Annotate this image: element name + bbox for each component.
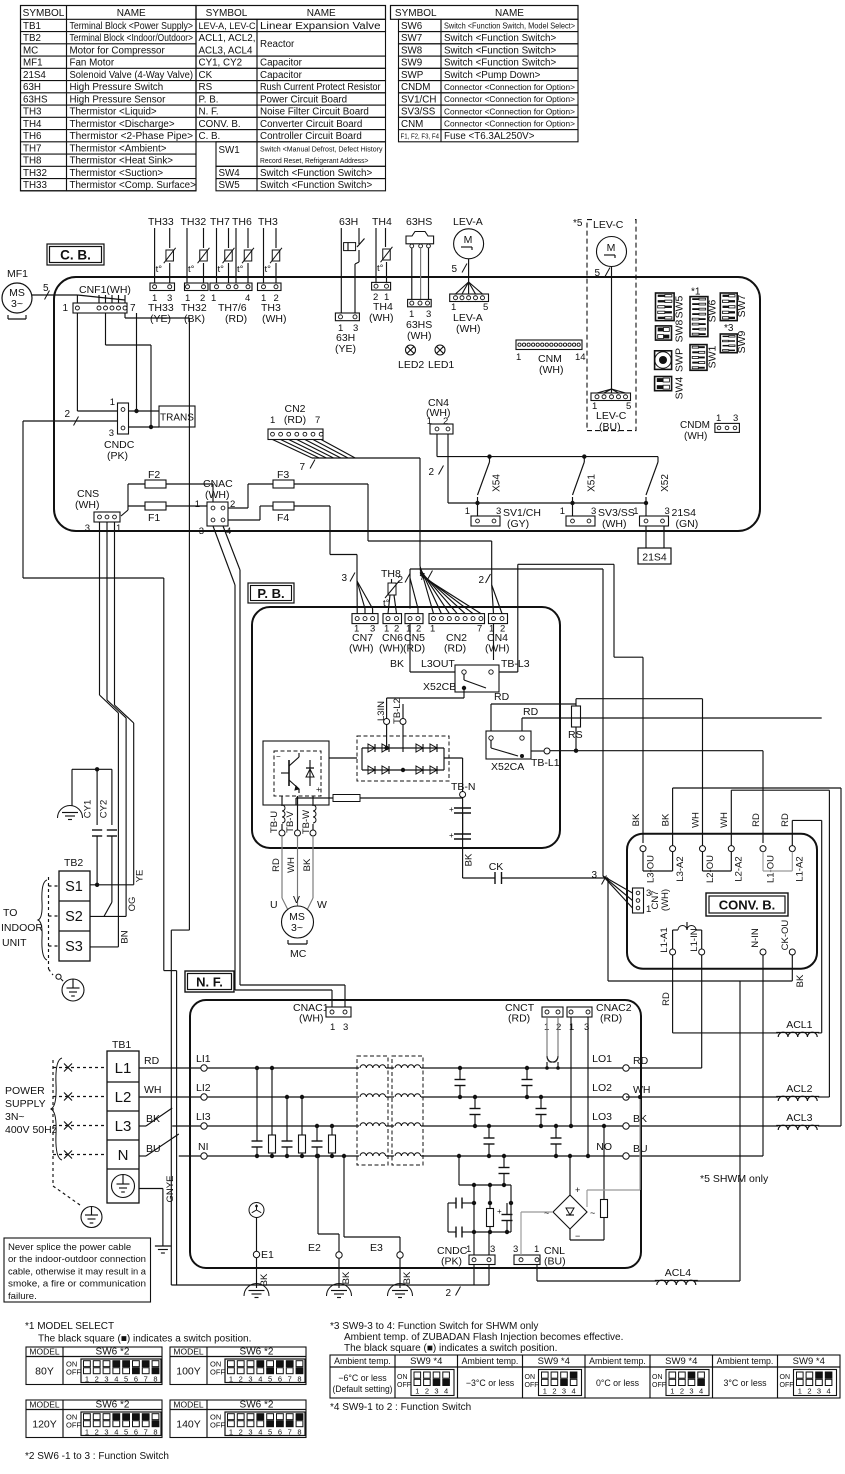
svg-text:CNDM: CNDM	[401, 82, 430, 93]
svg-text:3: 3	[490, 1244, 495, 1255]
svg-text:(WH): (WH)	[299, 1013, 324, 1025]
svg-text:MC: MC	[290, 948, 307, 960]
svg-text:WH: WH	[633, 1084, 651, 1096]
svg-text:(RD): (RD)	[600, 1013, 622, 1025]
svg-text:LED1: LED1	[428, 359, 454, 371]
svg-text:ACL1, ACL2,: ACL1, ACL2,	[199, 33, 256, 44]
svg-text:RD: RD	[751, 813, 762, 827]
svg-text:Capacitor: Capacitor	[260, 58, 303, 69]
svg-text:t°: t°	[377, 263, 384, 274]
svg-text:GNYE: GNYE	[165, 1176, 176, 1203]
svg-text:7: 7	[288, 1428, 292, 1437]
svg-text:7: 7	[299, 462, 305, 473]
svg-text:1: 1	[415, 1387, 419, 1396]
svg-text:7: 7	[477, 624, 482, 635]
svg-text:WH: WH	[286, 857, 297, 873]
svg-text:SUPPLY: SUPPLY	[5, 1098, 46, 1110]
svg-text:P. B.: P. B.	[257, 586, 284, 601]
svg-text:Switch <Pump Down>: Switch <Pump Down>	[444, 70, 541, 81]
svg-text:MODEL: MODEL	[29, 1400, 60, 1410]
svg-text:X54: X54	[492, 474, 503, 492]
svg-text:Fan Motor: Fan Motor	[70, 58, 115, 69]
svg-text:SW1: SW1	[219, 145, 240, 156]
svg-text:TH33: TH33	[23, 180, 48, 191]
svg-text:SW9 *4: SW9 *4	[665, 1356, 697, 1367]
svg-text:RD: RD	[633, 1055, 649, 1067]
svg-text:MF1: MF1	[7, 268, 28, 280]
svg-text:TH6: TH6	[232, 216, 252, 228]
svg-text:SW9 *4: SW9 *4	[793, 1356, 825, 1367]
svg-text:L3IN: L3IN	[376, 701, 387, 721]
svg-text:3: 3	[109, 428, 114, 439]
svg-text:2: 2	[443, 416, 448, 427]
svg-text:TB2: TB2	[23, 33, 41, 44]
svg-text:E1: E1	[261, 1249, 274, 1261]
svg-text:SW6 *2: SW6 *2	[240, 1347, 274, 1358]
svg-text:~: ~	[590, 1208, 595, 1218]
svg-text:SW6: SW6	[401, 21, 423, 32]
svg-text:3: 3	[513, 1244, 518, 1255]
svg-text:BK: BK	[146, 1113, 160, 1125]
svg-text:High Pressure Sensor: High Pressure Sensor	[70, 94, 167, 105]
svg-text:(RD): (RD)	[225, 313, 247, 325]
svg-text:(WH): (WH)	[75, 499, 100, 511]
svg-text:E2: E2	[308, 1242, 321, 1254]
svg-text:C. B.: C. B.	[60, 248, 91, 263]
svg-text:1: 1	[330, 1022, 335, 1033]
svg-text:TH33: TH33	[148, 216, 174, 228]
svg-text:CK-OU: CK-OU	[780, 920, 791, 951]
svg-text:1: 1	[85, 1375, 89, 1384]
svg-text:TH4: TH4	[23, 119, 42, 130]
svg-text:BK: BK	[302, 858, 313, 871]
svg-text:MODEL: MODEL	[173, 1347, 204, 1357]
svg-text:NAME: NAME	[117, 8, 146, 19]
svg-text:RD: RD	[780, 813, 791, 827]
svg-text:LED2: LED2	[398, 359, 424, 371]
svg-text:F2: F2	[148, 469, 160, 481]
svg-text:CY1, CY2: CY1, CY2	[199, 58, 243, 69]
svg-text:Thermistor <2-Phase Pipe>: Thermistor <2-Phase Pipe>	[70, 131, 194, 142]
svg-text:Thermistor <Heat Sink>: Thermistor <Heat Sink>	[70, 156, 174, 167]
svg-text:+: +	[497, 1207, 502, 1216]
svg-text:5: 5	[124, 1375, 128, 1384]
svg-text:OFF: OFF	[525, 1382, 539, 1389]
svg-text:Motor for Compressor: Motor for Compressor	[70, 45, 166, 56]
svg-text:Connector <Connection for Opti: Connector <Connection for Option>	[444, 106, 575, 116]
svg-text:Power Circuit Board: Power Circuit Board	[260, 94, 347, 105]
svg-text:LI1: LI1	[196, 1053, 211, 1065]
svg-text:t°: t°	[188, 264, 195, 275]
svg-text:BN: BN	[119, 930, 130, 943]
svg-text:(WH): (WH)	[602, 518, 627, 530]
svg-text:+: +	[316, 785, 321, 794]
svg-text:6: 6	[278, 1428, 282, 1437]
svg-text:*5 SHWM only: *5 SHWM only	[700, 1173, 769, 1185]
svg-text:M: M	[464, 234, 473, 246]
svg-text:7: 7	[130, 303, 136, 314]
svg-text:SYMBOL: SYMBOL	[395, 8, 437, 19]
svg-text:3: 3	[591, 506, 596, 517]
svg-text:TB2: TB2	[64, 857, 83, 869]
svg-text:*1 MODEL SELECT: *1 MODEL SELECT	[25, 1321, 114, 1332]
svg-text:cable, otherwise it may result: cable, otherwise it may result in a	[8, 1266, 147, 1277]
svg-text:Switch <Function Switch>: Switch <Function Switch>	[444, 45, 556, 56]
svg-text:Converter Circuit Board: Converter Circuit Board	[260, 119, 362, 130]
svg-text:3: 3	[733, 413, 738, 424]
svg-text:5: 5	[451, 264, 457, 275]
svg-text:Capacitor: Capacitor	[260, 70, 303, 81]
svg-text:L3: L3	[115, 1118, 132, 1135]
svg-text:TH32: TH32	[181, 216, 207, 228]
svg-text:2: 2	[239, 1375, 243, 1384]
svg-text:1: 1	[543, 1387, 547, 1396]
svg-text:L3OUT: L3OUT	[421, 658, 455, 670]
svg-text:CNDM: CNDM	[680, 420, 710, 431]
svg-text:SW4: SW4	[674, 376, 686, 399]
svg-text:E3: E3	[370, 1242, 383, 1254]
svg-text:3: 3	[591, 870, 597, 881]
svg-text:(BK): (BK)	[184, 313, 205, 325]
svg-text:F1: F1	[148, 512, 160, 524]
svg-text:C. B.: C. B.	[199, 131, 221, 142]
svg-text:1: 1	[516, 352, 521, 363]
svg-text:(BU): (BU)	[599, 421, 621, 433]
svg-text:Switch <Function Switch>: Switch <Function Switch>	[260, 180, 372, 191]
svg-text:*3 SW9-3 to 4: Function Switc: *3 SW9-3 to 4: Function Switch for SHWM …	[330, 1321, 538, 1332]
svg-text:The black square (■) indicates: The black square (■) indicates a switch …	[344, 1343, 557, 1354]
svg-text:(YE): (YE)	[150, 313, 171, 325]
svg-text:L3-OU: L3-OU	[645, 855, 656, 883]
svg-text:Terminal Block <Power Supply>: Terminal Block <Power Supply>	[70, 21, 194, 32]
svg-text:SW5: SW5	[674, 295, 686, 318]
svg-text:1: 1	[270, 415, 275, 426]
svg-text:7: 7	[144, 1375, 148, 1384]
svg-text:V: V	[293, 894, 300, 906]
svg-text:4: 4	[572, 1387, 576, 1396]
svg-text:TB1: TB1	[23, 21, 41, 32]
svg-text:SW7: SW7	[736, 294, 748, 317]
svg-text:(WH): (WH)	[485, 643, 510, 655]
svg-text:smoke, a fire or communication: smoke, a fire or communication	[8, 1279, 146, 1290]
svg-text:(BU): (BU)	[544, 1256, 566, 1268]
svg-text:2: 2	[95, 1428, 99, 1437]
svg-text:BU: BU	[146, 1143, 161, 1155]
svg-text:N-IN: N-IN	[750, 928, 761, 948]
svg-text:3N~: 3N~	[5, 1111, 25, 1123]
svg-text:CK: CK	[199, 70, 213, 81]
svg-text:1: 1	[229, 1428, 233, 1437]
svg-text:L1-OU: L1-OU	[765, 855, 776, 883]
svg-text:CONV. B.: CONV. B.	[199, 119, 241, 130]
svg-text:1: 1	[569, 1022, 574, 1033]
svg-text:t°: t°	[218, 264, 225, 275]
svg-text:Fuse <T6.3AL250V>: Fuse <T6.3AL250V>	[444, 131, 535, 142]
svg-text:2: 2	[239, 1428, 243, 1437]
svg-text:(YE): (YE)	[335, 343, 356, 355]
svg-text:WH: WH	[690, 812, 701, 828]
svg-text:S1: S1	[65, 879, 83, 895]
svg-text:1: 1	[110, 397, 115, 408]
svg-text:8: 8	[297, 1375, 301, 1384]
svg-text:N: N	[118, 1147, 129, 1164]
svg-text:SW6 *2: SW6 *2	[240, 1400, 274, 1411]
svg-text:3: 3	[665, 506, 670, 517]
svg-text:CONV. B.: CONV. B.	[719, 898, 776, 913]
svg-text:(WH): (WH)	[407, 330, 432, 342]
svg-text:3: 3	[199, 526, 204, 537]
svg-text:X52CA: X52CA	[491, 761, 524, 773]
svg-text:ON: ON	[397, 1374, 408, 1381]
svg-text:+: +	[449, 805, 454, 814]
svg-text:2: 2	[552, 1387, 556, 1396]
svg-text:21S4: 21S4	[642, 552, 667, 564]
svg-text:ON: ON	[652, 1374, 663, 1381]
svg-text:LO1: LO1	[592, 1053, 612, 1065]
svg-text:WH: WH	[144, 1084, 162, 1096]
svg-text:X52CB: X52CB	[423, 681, 456, 693]
svg-text:63HS: 63HS	[406, 216, 432, 228]
svg-text:Never splice the power cable: Never splice the power cable	[8, 1242, 131, 1253]
svg-text:N. F.: N. F.	[199, 107, 219, 118]
svg-text:1: 1	[670, 1387, 674, 1396]
svg-text:failure.: failure.	[8, 1291, 37, 1302]
svg-text:TH7: TH7	[23, 143, 42, 154]
svg-text:L2-A2: L2-A2	[734, 856, 745, 881]
svg-text:WH: WH	[719, 812, 730, 828]
svg-text:*3: *3	[724, 323, 734, 334]
svg-text:(RD): (RD)	[403, 643, 425, 655]
svg-text:F1, F2, F3, F4: F1, F2, F3, F4	[401, 131, 440, 140]
svg-text:1: 1	[62, 303, 68, 314]
svg-text:MODEL: MODEL	[173, 1400, 204, 1410]
svg-text:2: 2	[445, 1288, 451, 1299]
svg-text:TH4: TH4	[372, 216, 392, 228]
svg-text:Ambient temp.: Ambient temp.	[589, 1356, 646, 1366]
svg-text:RS: RS	[199, 82, 213, 93]
svg-text:8: 8	[297, 1428, 301, 1437]
svg-text:7: 7	[419, 572, 425, 583]
svg-text:SV3/SS: SV3/SS	[401, 107, 436, 118]
svg-text:14: 14	[575, 352, 586, 363]
svg-text:NAME: NAME	[495, 8, 524, 19]
svg-text:TH3: TH3	[258, 216, 278, 228]
svg-text:t°: t°	[156, 264, 163, 275]
svg-text:6: 6	[134, 1428, 138, 1437]
svg-text:3: 3	[341, 573, 347, 584]
svg-text:63H: 63H	[339, 216, 358, 228]
svg-text:Terminal Block <Indoor/Outdoor: Terminal Block <Indoor/Outdoor>	[70, 33, 194, 44]
svg-text:2: 2	[397, 575, 403, 586]
svg-text:MF1: MF1	[23, 58, 43, 69]
svg-text:SW8: SW8	[674, 319, 686, 342]
svg-text:3: 3	[562, 1387, 566, 1396]
svg-text:Noise Filter Circuit Board: Noise Filter Circuit Board	[260, 107, 369, 118]
svg-text:7: 7	[288, 1375, 292, 1384]
svg-text:1: 1	[229, 1375, 233, 1384]
svg-text:Switch <Function Switch>: Switch <Function Switch>	[444, 33, 556, 44]
svg-text:High Pressure Switch: High Pressure Switch	[70, 82, 164, 93]
svg-text:2: 2	[478, 575, 484, 586]
svg-text:TB-L1: TB-L1	[531, 757, 560, 769]
svg-text:SW5: SW5	[219, 180, 241, 191]
svg-text:(WH): (WH)	[205, 489, 230, 501]
svg-text:CY1: CY1	[82, 800, 93, 818]
svg-text:1: 1	[798, 1387, 802, 1396]
svg-text:LI3: LI3	[196, 1111, 211, 1123]
svg-text:8: 8	[153, 1375, 157, 1384]
svg-text:ACL2: ACL2	[786, 1083, 812, 1095]
svg-text:63H: 63H	[23, 82, 41, 93]
svg-text:TH3: TH3	[23, 107, 42, 118]
svg-text:Thermistor <Comp. Surface>: Thermistor <Comp. Surface>	[70, 180, 197, 191]
svg-text:2: 2	[680, 1387, 684, 1396]
svg-text:+: +	[575, 1185, 580, 1195]
svg-text:RD: RD	[523, 706, 539, 718]
svg-text:BK: BK	[795, 974, 806, 987]
svg-text:−: −	[276, 752, 281, 761]
svg-text:Ambient temp. of ZUBADAN Flash: Ambient temp. of ZUBADAN Flash Injection…	[344, 1332, 623, 1343]
svg-text:TB-W: TB-W	[301, 810, 312, 834]
svg-text:*2 SW6 -1 to 3 : Function Swi: *2 SW6 -1 to 3 : Function Switch	[25, 1451, 169, 1462]
svg-text:400V 50Hz: 400V 50Hz	[5, 1124, 57, 1136]
svg-text:Connector <Connection for Opti: Connector <Connection for Option>	[444, 94, 575, 104]
svg-text:X52: X52	[660, 474, 671, 492]
svg-text:SV1/CH: SV1/CH	[401, 94, 436, 105]
svg-text:Reactor: Reactor	[260, 39, 295, 50]
svg-text:5: 5	[268, 1428, 272, 1437]
svg-text:6: 6	[278, 1375, 282, 1384]
svg-text:SYMBOL: SYMBOL	[206, 8, 248, 19]
svg-text:RD: RD	[271, 858, 282, 872]
svg-text:3: 3	[343, 1022, 348, 1033]
svg-text:(RD): (RD)	[284, 414, 306, 426]
svg-text:CNM: CNM	[401, 119, 423, 130]
svg-text:TB1: TB1	[112, 1039, 131, 1051]
svg-text:S3: S3	[65, 939, 83, 955]
svg-text:3: 3	[496, 506, 501, 517]
svg-text:t°: t°	[237, 264, 244, 275]
svg-text:(WH): (WH)	[349, 643, 374, 655]
svg-text:CNF1(WH): CNF1(WH)	[79, 284, 131, 296]
svg-text:LEV-A: LEV-A	[453, 216, 483, 228]
svg-text:BK: BK	[390, 658, 404, 670]
svg-text:140Y: 140Y	[176, 1419, 201, 1431]
svg-text:N. F.: N. F.	[196, 975, 223, 990]
svg-text:~: ~	[544, 1208, 549, 1218]
svg-text:4: 4	[258, 1428, 262, 1437]
svg-text:(WH): (WH)	[456, 323, 481, 335]
svg-text:NI: NI	[198, 1141, 209, 1153]
svg-text:P. B.: P. B.	[199, 94, 219, 105]
svg-text:5: 5	[626, 401, 631, 412]
svg-text:Switch <Function Switch>: Switch <Function Switch>	[444, 58, 556, 69]
svg-text:(RD): (RD)	[508, 1013, 530, 1025]
svg-text:1: 1	[85, 1428, 89, 1437]
svg-text:Thermistor <Liquid>: Thermistor <Liquid>	[70, 107, 157, 118]
svg-text:Ambient temp.: Ambient temp.	[462, 1356, 519, 1366]
svg-text:RD: RD	[494, 691, 510, 703]
svg-text:80Y: 80Y	[35, 1366, 54, 1378]
svg-text:2: 2	[95, 1375, 99, 1384]
svg-text:OFF: OFF	[780, 1382, 794, 1389]
svg-text:0°C or less: 0°C or less	[596, 1378, 640, 1388]
svg-text:or the indoor-outdoor connecti: or the indoor-outdoor connection	[8, 1254, 146, 1265]
svg-text:UNIT: UNIT	[2, 937, 27, 949]
svg-text:OFF: OFF	[66, 1368, 81, 1377]
svg-text:3: 3	[104, 1375, 108, 1384]
svg-text:OFF: OFF	[66, 1421, 81, 1430]
svg-text:4: 4	[444, 1387, 448, 1396]
svg-text:F3: F3	[277, 469, 289, 481]
svg-text:Record Reset, Refrigerant Addr: Record Reset, Refrigerant Address>	[260, 156, 369, 165]
svg-text:21S4: 21S4	[23, 70, 46, 81]
svg-text:TB-U: TB-U	[269, 811, 280, 833]
svg-text:SW6: SW6	[707, 299, 719, 322]
svg-text:3~: 3~	[291, 922, 303, 934]
svg-text:4: 4	[699, 1387, 703, 1396]
svg-text:3: 3	[104, 1428, 108, 1437]
svg-text:1: 1	[534, 1244, 539, 1255]
svg-text:Rush Current Protect Resistor: Rush Current Protect Resistor	[260, 82, 381, 93]
svg-text:−3°C or less: −3°C or less	[466, 1378, 515, 1388]
svg-text:3: 3	[817, 1387, 821, 1396]
svg-text:1: 1	[195, 499, 200, 510]
svg-text:RD: RD	[661, 992, 672, 1006]
svg-text:LEV-A, LEV-C: LEV-A, LEV-C	[199, 21, 256, 31]
svg-text:−6°C or less: −6°C or less	[338, 1373, 387, 1383]
svg-text:NAME: NAME	[307, 8, 336, 19]
svg-text:7: 7	[315, 415, 320, 426]
svg-text:BK: BK	[631, 813, 642, 826]
svg-text:OFF: OFF	[210, 1421, 225, 1430]
svg-text:Switch <Function Switch>: Switch <Function Switch>	[260, 168, 372, 179]
svg-text:5: 5	[594, 268, 600, 279]
svg-text:2: 2	[428, 467, 434, 478]
svg-text:SYMBOL: SYMBOL	[23, 8, 65, 19]
svg-text:(WH): (WH)	[684, 431, 707, 442]
svg-text:2: 2	[556, 1022, 561, 1033]
svg-text:Switch <Manual Defrost, Defect: Switch <Manual Defrost, Defect History	[260, 144, 383, 153]
svg-text:INDOOR: INDOOR	[1, 922, 43, 934]
svg-text:TH8: TH8	[23, 156, 42, 167]
svg-text:+: +	[449, 831, 454, 840]
svg-text:ACL1: ACL1	[786, 1019, 812, 1031]
svg-text:t°: t°	[265, 264, 272, 275]
svg-text:5: 5	[268, 1375, 272, 1384]
svg-text:1: 1	[211, 293, 216, 304]
svg-text:5: 5	[124, 1428, 128, 1437]
svg-text:3: 3	[434, 1387, 438, 1396]
svg-text:L1-IN: L1-IN	[689, 928, 700, 951]
svg-text:RD: RD	[144, 1055, 160, 1067]
svg-text:SW9 *4: SW9 *4	[410, 1356, 442, 1367]
svg-text:L1-A2: L1-A2	[795, 856, 806, 881]
svg-text:TB-L3: TB-L3	[501, 658, 530, 670]
svg-text:1: 1	[560, 506, 565, 517]
svg-text:(WH): (WH)	[660, 889, 671, 911]
svg-text:TB-L2: TB-L2	[392, 698, 403, 724]
svg-text:2: 2	[425, 1387, 429, 1396]
svg-text:Connector <Connection for Opti: Connector <Connection for Option>	[444, 82, 575, 92]
svg-text:3: 3	[248, 1375, 252, 1384]
svg-text:LO3: LO3	[592, 1111, 612, 1123]
svg-text:(GN): (GN)	[676, 518, 699, 530]
svg-text:BK: BK	[341, 1271, 352, 1284]
svg-text:S2: S2	[65, 909, 83, 925]
svg-text:RS: RS	[568, 729, 583, 741]
svg-text:BK: BK	[660, 813, 671, 826]
